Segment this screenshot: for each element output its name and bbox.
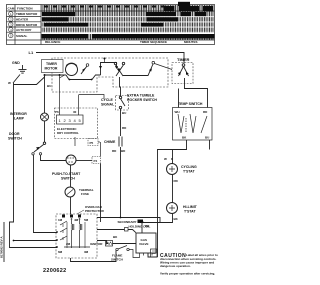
svg-text:BU: BU xyxy=(205,136,209,140)
wire lamp to door switch xyxy=(44,121,46,142)
svg-text:6M: 6M xyxy=(58,250,63,254)
svg-text:SWITCH: SWITCH xyxy=(61,177,75,181)
cam column circled numbers xyxy=(9,12,13,38)
timer sequence chart frame xyxy=(7,5,215,45)
svg-text:W: W xyxy=(164,157,167,161)
svg-text:8178082 REV A: 8178082 REV A xyxy=(0,236,4,258)
svg-text:MOTOR: MOTOR xyxy=(45,67,58,71)
secondary coil leader blob xyxy=(138,220,144,224)
gas valve xyxy=(136,233,156,253)
cycling thermostat xyxy=(167,164,178,175)
wire jog below timer motor xyxy=(66,75,101,80)
electronic dry control xyxy=(55,108,98,139)
svg-text:HOLDING COIL: HOLDING COIL xyxy=(129,225,151,229)
cam 3 bar xyxy=(44,23,88,27)
motor terminals top xyxy=(62,215,81,218)
wire motor to ignitor xyxy=(97,241,108,244)
svg-text:P4: P4 xyxy=(94,159,98,163)
svg-text:WH: WH xyxy=(175,110,180,114)
rocker pivot bail xyxy=(101,63,117,76)
wire chime down to valve coils xyxy=(120,147,122,218)
svg-text:Verify proper operation after: Verify proper operation after servicing. xyxy=(160,272,215,276)
svg-text:TEMP SWITCH: TEMP SWITCH xyxy=(178,102,203,106)
svg-text:FUNCTION: FUNCTION xyxy=(17,7,33,11)
svg-text:HEATER: HEATER xyxy=(16,18,29,22)
svg-text:CYCLING: CYCLING xyxy=(181,165,197,169)
svg-text:3M: 3M xyxy=(84,250,89,254)
wire push-to-start to P4 xyxy=(76,160,92,162)
wire hi-limit to valve node xyxy=(142,214,173,223)
wire motor tie to thermostat chain xyxy=(97,218,173,223)
svg-text:IGNITOR: IGNITOR xyxy=(90,242,103,246)
svg-text:SIGNAL: SIGNAL xyxy=(101,103,115,107)
timer motor M1 xyxy=(66,64,78,76)
wire flame switch to valve bottom xyxy=(129,250,140,258)
terminal stub on dashed top xyxy=(104,58,106,63)
wire timer motor bottom rail xyxy=(45,74,67,76)
wire motor to holding coil terminal xyxy=(97,229,125,231)
wire L1 top rail xyxy=(36,53,184,64)
svg-text:LAMP: LAMP xyxy=(14,117,25,121)
wire thermal fuse xyxy=(70,165,72,187)
svg-text:P5: P5 xyxy=(90,141,94,145)
svg-text:HI-LIMIT: HI-LIMIT xyxy=(183,205,198,209)
svg-text:CAM: CAM xyxy=(8,7,15,11)
chart header + function labels xyxy=(8,7,198,44)
svg-text:INTERIOR: INTERIOR xyxy=(10,112,27,116)
wire timer switch to temp switch right xyxy=(185,78,208,108)
timer motor label box xyxy=(42,60,64,73)
svg-text:TIMER: TIMER xyxy=(46,62,57,66)
extra tumble rocker X switch xyxy=(114,62,124,76)
svg-text:L1: L1 xyxy=(29,50,34,55)
svg-text:GND: GND xyxy=(12,61,20,65)
wire door switch to push-to-start xyxy=(41,155,67,161)
svg-text:5M: 5M xyxy=(84,218,89,222)
chart header black segments xyxy=(42,2,215,39)
chart tick texture xyxy=(42,5,215,40)
svg-text:DRIVE MOTOR: DRIVE MOTOR xyxy=(16,23,38,27)
svg-text:BU: BU xyxy=(47,84,51,88)
drive motor dashed box xyxy=(56,214,97,258)
hi-limit thermostat xyxy=(167,203,178,214)
svg-text:SECONDARY COIL: SECONDARY COIL xyxy=(118,220,145,224)
svg-text:PROTECTOR: PROTECTOR xyxy=(85,209,105,213)
timer cam switch (heater) xyxy=(172,63,193,84)
svg-text:dangerous operation.: dangerous operation. xyxy=(160,264,191,268)
svg-text:FUSE: FUSE xyxy=(81,192,89,196)
wire rocker to cam contact xyxy=(123,64,153,76)
wire temp switch bottom BU xyxy=(209,140,211,150)
flame switch xyxy=(116,246,129,251)
chart row separators xyxy=(42,17,215,34)
wires edc bottom stubs / P5 xyxy=(74,137,76,146)
wire neutral into motor xyxy=(14,240,58,242)
svg-text:W: W xyxy=(8,81,11,85)
wire lamp feed xyxy=(44,75,46,113)
wire valve bottom right xyxy=(148,253,158,257)
svg-text:T'STAT: T'STAT xyxy=(184,210,196,214)
svg-text:T'STAT: T'STAT xyxy=(183,170,195,174)
cam 2 bar xyxy=(42,17,68,21)
svg-text:SWITCH: SWITCH xyxy=(8,137,22,141)
thermal fuse xyxy=(65,187,75,197)
left edge revision strip xyxy=(3,222,5,262)
burner connector box xyxy=(151,249,158,257)
svg-text:TIMER SEQUENCE: TIMER SEQUENCE xyxy=(140,40,167,44)
wire left neutral bus xyxy=(10,83,58,248)
wire cycling tstat chain xyxy=(172,150,174,203)
svg-text:SIGNAL: SIGNAL xyxy=(16,34,28,38)
svg-text:EXTRA TUMBLE: EXTRA TUMBLE xyxy=(127,94,155,98)
contact arm right of timer motor xyxy=(81,66,87,74)
push-to-start switch xyxy=(66,155,76,165)
svg-text:RELIANCE: RELIANCE xyxy=(45,40,60,44)
wire temp switch left feed xyxy=(178,89,180,108)
wire P4 down to coils node xyxy=(100,164,102,223)
svg-text:ROCKER SWITCH: ROCKER SWITCH xyxy=(127,98,157,102)
cam 5 full bar xyxy=(42,34,89,39)
wire cam contact to timer switch xyxy=(155,64,173,70)
svg-text:30: 30 xyxy=(73,110,77,114)
motor internals xyxy=(60,220,90,248)
svg-text:BU: BU xyxy=(122,111,126,115)
cycle signal dashed box xyxy=(116,96,129,111)
wires edc terminals up xyxy=(60,75,105,115)
svg-text:4M: 4M xyxy=(74,218,79,222)
wire valve top to hi-limit node xyxy=(141,223,143,234)
svg-text:DOOR: DOOR xyxy=(9,132,20,136)
svg-text:VALVE: VALVE xyxy=(139,242,149,246)
svg-text:SWITCH: SWITCH xyxy=(111,258,123,262)
svg-text:2200622: 2200622 xyxy=(43,268,67,274)
wire rocker bottom to cycle signal xyxy=(120,77,121,96)
wire temp switch bottom BK xyxy=(158,140,187,257)
svg-text:CYCLE: CYCLE xyxy=(101,98,114,102)
wire motor bottom to flame switch xyxy=(71,251,117,262)
valve bottom terminals xyxy=(140,253,153,256)
svg-text:CHIME: CHIME xyxy=(104,140,116,144)
cam numbers xyxy=(10,12,12,38)
svg-text:1M: 1M xyxy=(58,218,63,222)
cam 1 bar xyxy=(42,12,75,16)
svg-text:P6: P6 xyxy=(55,110,59,114)
wire cycle signal to chime xyxy=(120,109,122,136)
svg-text:TIMER: TIMER xyxy=(177,57,190,62)
wire neutral to timer motor xyxy=(14,75,45,85)
svg-text:PUSH-TO-START: PUSH-TO-START xyxy=(52,172,81,176)
svg-text:AUTO DRY: AUTO DRY xyxy=(16,28,32,32)
svg-text:MINUTES: MINUTES xyxy=(184,40,198,44)
svg-text:TIMER MOTOR: TIMER MOTOR xyxy=(16,12,38,16)
wire holding coil into valve xyxy=(128,230,136,233)
svg-text:DRY CONTROL: DRY CONTROL xyxy=(57,131,79,135)
wire door switch to motor xyxy=(34,155,58,233)
chart header scale marks xyxy=(44,6,165,8)
timer dashed enclosure xyxy=(52,58,168,92)
